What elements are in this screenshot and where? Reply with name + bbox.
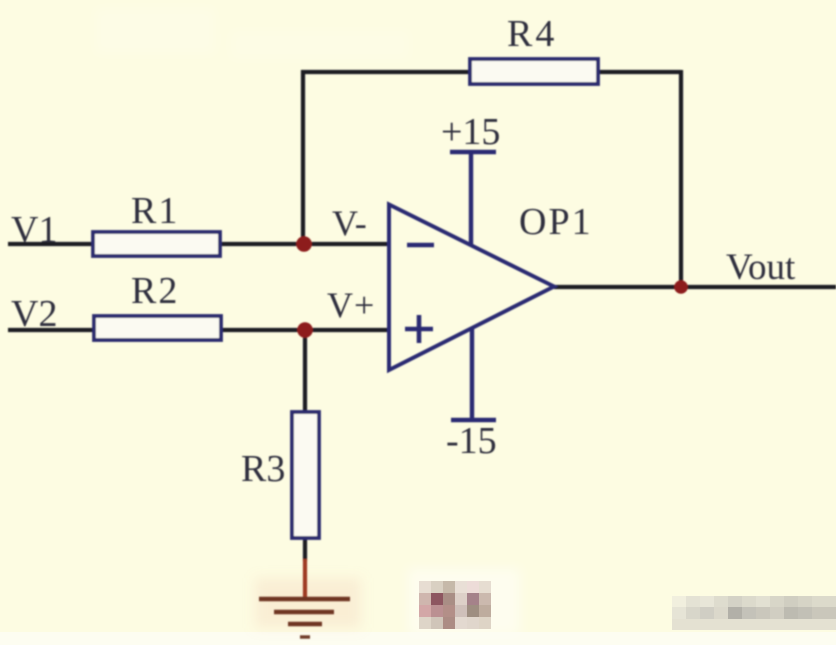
svg-text:R2: R2 bbox=[131, 270, 179, 312]
svg-text:V1: V1 bbox=[11, 209, 57, 251]
node: output junction dot bbox=[674, 280, 688, 294]
wire: V+ node down to R3 bbox=[303, 330, 307, 413]
power +15 bar bbox=[450, 150, 496, 154]
svg-text:OP1: OP1 bbox=[519, 201, 593, 243]
watermark mosaic (grey, bottom right) bbox=[672, 596, 836, 630]
op-amp inverting minus sign bbox=[407, 243, 434, 248]
wire: feedback top rail bbox=[301, 70, 681, 74]
op-amp non-inverting plus sign bbox=[405, 315, 433, 343]
ground bar 2 bbox=[274, 610, 334, 615]
svg-text:+15: +15 bbox=[441, 111, 500, 153]
pink halo around ground symbol bbox=[255, 578, 361, 628]
svg-text:R4: R4 bbox=[507, 13, 557, 55]
resistor R2 bbox=[94, 316, 221, 340]
node: non-inverting input junction dot bbox=[297, 322, 313, 338]
resistor R4 bbox=[470, 59, 598, 84]
wire: R3 bottom to ground (upper dark part) bbox=[303, 537, 307, 561]
svg-text:Vout: Vout bbox=[726, 247, 796, 288]
ground bar 1 bbox=[259, 597, 350, 602]
wire: feedback right vertical leg bbox=[679, 70, 683, 287]
power -15 stem bbox=[470, 328, 474, 420]
node: inverting input junction dot bbox=[296, 236, 312, 252]
svg-text:V+: V+ bbox=[327, 285, 375, 325]
svg-text:-15: -15 bbox=[446, 420, 497, 462]
svg-text:V2: V2 bbox=[11, 293, 57, 335]
resistor R1 bbox=[93, 232, 220, 256]
wire: op-amp output to Vout (y=287) bbox=[554, 285, 836, 289]
wire: V1 input to inverting input (y=244) bbox=[8, 242, 389, 246]
watermark mosaic (red seal, pixelated) bbox=[419, 581, 491, 629]
background light blotches (jpeg ghosts) bbox=[95, 8, 520, 636]
svg-text:V-: V- bbox=[332, 203, 367, 243]
wire: feedback left vertical leg bbox=[301, 70, 305, 244]
bottom white band bbox=[0, 632, 836, 645]
svg-text:R1: R1 bbox=[131, 190, 179, 232]
op-amp OP1 triangle bbox=[389, 205, 554, 371]
ground stem (red part) bbox=[303, 559, 307, 599]
power -15 bar bbox=[451, 418, 496, 422]
svg-text:R3: R3 bbox=[241, 448, 285, 490]
ground bar 4 (remnant dash) bbox=[300, 635, 310, 638]
ground bar 3 bbox=[288, 622, 322, 627]
wire: V2 input to non-inverting input (y=330) bbox=[8, 328, 389, 332]
power +15 stem bbox=[469, 152, 473, 246]
resistor R3 bbox=[292, 412, 319, 538]
